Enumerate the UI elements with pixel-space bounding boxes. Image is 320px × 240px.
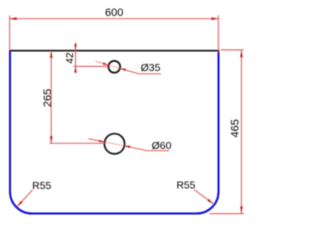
hole circle O35 — [108, 61, 120, 73]
dimension 465: line, extensions — [210, 50, 244, 214]
svg-text:Ø60: Ø60 — [152, 140, 172, 152]
leader R55 left arrow — [17, 201, 22, 207]
leader O35: line through circle and landing — [96, 61, 162, 74]
svg-text:R55: R55 — [177, 181, 196, 192]
leader O60 arrows — [99, 140, 131, 148]
svg-text:465: 465 — [230, 119, 242, 137]
leader O35 arrows — [103, 62, 126, 71]
dimension 600: line, extensions — [10, 15, 219, 52]
leader R55 left — [17, 190, 32, 207]
leader R55 right — [194, 190, 213, 204]
dimension 265: line and extension to O60 center — [49, 51, 104, 143]
dimension 42 arrows — [74, 44, 77, 72]
svg-text:42: 42 — [65, 52, 76, 64]
dimension 600 arrows — [10, 17, 219, 20]
svg-text:600: 600 — [105, 7, 123, 19]
dimension 465 arrows — [240, 50, 243, 213]
plate top edge — [9, 50, 219, 52]
svg-text:R55: R55 — [32, 181, 51, 192]
svg-text:265: 265 — [42, 89, 54, 107]
dimension 265 arrows — [50, 51, 53, 143]
dimension 42: line and extension to hole center — [74, 43, 109, 74]
leader R55 right arrow — [207, 199, 213, 204]
svg-text:Ø35: Ø35 — [141, 62, 161, 74]
leader O60: line through circle and landing — [88, 139, 169, 151]
plate outline (blue sides and rounded bottom) — [10, 51, 219, 214]
hole circle O60 — [104, 134, 124, 154]
